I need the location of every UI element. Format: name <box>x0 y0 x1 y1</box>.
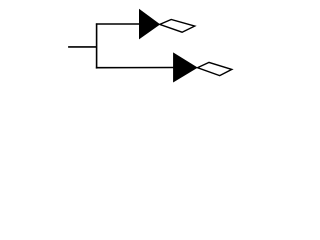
wire: top branch <box>96 23 140 25</box>
diamond D2 (open, bottom branch) <box>197 62 231 75</box>
wire: vertical bus at junction <box>96 23 98 68</box>
diamond D1 (open, top branch) <box>160 20 195 33</box>
wire: bottom branch <box>96 67 174 69</box>
arrowhead A1 (filled triangle, top branch) <box>139 9 159 39</box>
arrowhead A2 (filled triangle, bottom branch) <box>173 53 197 82</box>
wire: input stub <box>68 46 97 48</box>
